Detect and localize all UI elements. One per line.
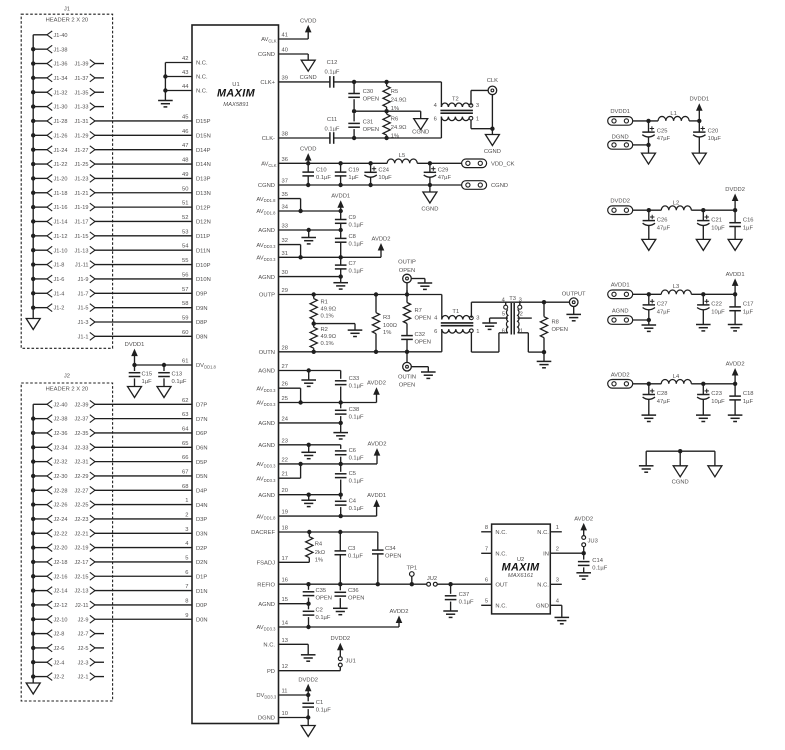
svg-text:J2-21: J2-21 — [75, 531, 89, 537]
svg-text:D9P: D9P — [196, 291, 207, 297]
svg-text:J2-14: J2-14 — [54, 589, 68, 595]
svg-text:R8: R8 — [552, 319, 559, 325]
svg-text:J2-16: J2-16 — [54, 574, 68, 580]
svg-text:J1-22: J1-22 — [54, 162, 68, 168]
svg-text:J1-30: J1-30 — [54, 105, 68, 111]
svg-text:1%: 1% — [315, 557, 323, 563]
svg-text:5: 5 — [502, 312, 505, 318]
svg-text:C8: C8 — [349, 234, 356, 240]
svg-text:41: 41 — [282, 33, 288, 39]
svg-text:53: 53 — [182, 229, 188, 235]
svg-text:J1-18: J1-18 — [54, 191, 68, 197]
svg-text:J1-7: J1-7 — [78, 291, 89, 297]
svg-text:7: 7 — [485, 547, 488, 553]
svg-text:J2-10: J2-10 — [54, 617, 68, 623]
svg-text:J1-39: J1-39 — [75, 62, 89, 68]
svg-text:C25: C25 — [657, 128, 668, 134]
svg-text:AVCLK: AVCLK — [261, 37, 277, 43]
svg-text:DACREF: DACREF — [251, 530, 275, 536]
svg-text:35: 35 — [282, 192, 288, 198]
svg-text:J2-27: J2-27 — [75, 488, 89, 494]
svg-text:J1-13: J1-13 — [75, 248, 89, 254]
svg-text:C37: C37 — [459, 592, 470, 598]
svg-text:CGND: CGND — [300, 75, 317, 81]
svg-text:0.1µF: 0.1µF — [349, 506, 364, 512]
svg-text:J2-12: J2-12 — [54, 603, 68, 609]
svg-text:J1-12: J1-12 — [54, 234, 68, 240]
svg-text:L4: L4 — [673, 374, 680, 380]
svg-text:J2-17: J2-17 — [75, 560, 89, 566]
svg-text:J2-37: J2-37 — [75, 417, 89, 423]
svg-text:N.C.: N.C. — [495, 604, 507, 610]
svg-text:AGND: AGND — [258, 602, 275, 608]
svg-text:0.1µF: 0.1µF — [316, 707, 331, 713]
svg-text:AVDD1: AVDD1 — [331, 194, 350, 200]
svg-text:N.C.: N.C. — [537, 530, 549, 536]
svg-text:19: 19 — [282, 510, 288, 516]
svg-text:C12: C12 — [327, 60, 338, 66]
svg-text:OUT: OUT — [495, 583, 508, 589]
svg-text:34: 34 — [282, 205, 289, 211]
svg-text:39: 39 — [282, 75, 288, 81]
svg-text:AVDD3.3: AVDD3.3 — [256, 386, 276, 392]
svg-text:D10N: D10N — [196, 277, 211, 283]
svg-text:47: 47 — [182, 143, 188, 149]
svg-text:AVDD1: AVDD1 — [611, 282, 630, 288]
svg-text:16: 16 — [282, 578, 288, 584]
svg-text:J2-11: J2-11 — [75, 603, 89, 609]
svg-text:10µF: 10µF — [378, 175, 392, 181]
svg-text:C30: C30 — [363, 89, 374, 95]
svg-text:CGND: CGND — [258, 183, 275, 189]
svg-text:56: 56 — [182, 272, 188, 278]
svg-text:30: 30 — [282, 270, 288, 276]
svg-text:MAX6161: MAX6161 — [508, 573, 533, 579]
svg-text:3: 3 — [185, 527, 188, 533]
svg-text:D13P: D13P — [196, 177, 211, 183]
svg-text:CGND: CGND — [484, 149, 501, 155]
svg-text:OUTN: OUTN — [259, 350, 275, 356]
svg-text:N.C.: N.C. — [196, 89, 208, 95]
svg-text:100Ω: 100Ω — [383, 323, 398, 329]
svg-text:AGND: AGND — [258, 421, 275, 427]
svg-text:AVDD2: AVDD2 — [368, 442, 387, 448]
svg-text:52: 52 — [182, 215, 188, 221]
svg-text:R4: R4 — [315, 542, 323, 548]
svg-text:AVDD1: AVDD1 — [367, 493, 386, 499]
svg-text:49.9Ω: 49.9Ω — [321, 307, 337, 313]
svg-text:J1-28: J1-28 — [54, 119, 68, 125]
svg-text:1%: 1% — [391, 134, 399, 140]
svg-text:C33: C33 — [349, 376, 360, 382]
svg-text:CLK+: CLK+ — [260, 80, 275, 86]
svg-text:8: 8 — [185, 598, 188, 604]
svg-text:J2-4: J2-4 — [54, 660, 65, 666]
svg-text:J2-33: J2-33 — [75, 445, 89, 451]
svg-text:DVDD1: DVDD1 — [610, 109, 630, 115]
svg-text:3: 3 — [556, 578, 559, 584]
svg-text:C9: C9 — [349, 215, 356, 221]
svg-text:J1-23: J1-23 — [75, 177, 89, 183]
svg-text:C15: C15 — [142, 371, 153, 377]
svg-text:0.1µF: 0.1µF — [349, 478, 364, 484]
svg-text:D14P: D14P — [196, 148, 211, 154]
svg-text:1: 1 — [520, 328, 523, 334]
svg-text:DGND: DGND — [612, 134, 629, 140]
svg-text:1: 1 — [476, 117, 479, 123]
svg-text:0.1µF: 0.1µF — [349, 223, 364, 229]
svg-text:D15P: D15P — [196, 119, 211, 125]
svg-text:68: 68 — [182, 484, 188, 490]
svg-text:J2-28: J2-28 — [54, 488, 68, 494]
svg-text:D12P: D12P — [196, 205, 211, 211]
svg-text:AGND: AGND — [258, 493, 275, 499]
svg-text:C16: C16 — [743, 217, 754, 223]
svg-text:DGND: DGND — [258, 716, 275, 722]
svg-text:C3: C3 — [348, 546, 355, 552]
svg-text:J1-20: J1-20 — [54, 177, 68, 183]
svg-text:J2-13: J2-13 — [75, 589, 89, 595]
svg-text:AVDD3.3: AVDD3.3 — [256, 625, 276, 631]
svg-text:C24: C24 — [378, 168, 389, 174]
svg-text:C23: C23 — [711, 391, 722, 397]
svg-text:N.C.: N.C. — [196, 75, 208, 81]
svg-text:CGND: CGND — [421, 207, 438, 213]
svg-text:T3: T3 — [509, 296, 516, 302]
svg-text:D2N: D2N — [196, 560, 208, 566]
svg-text:D0N: D0N — [196, 617, 208, 623]
svg-text:AVDD1.8: AVDD1.8 — [256, 209, 276, 215]
svg-text:AVDD3.3: AVDD3.3 — [256, 476, 276, 482]
svg-text:60: 60 — [182, 330, 188, 336]
svg-text:1%: 1% — [383, 330, 391, 336]
svg-text:D6N: D6N — [196, 445, 208, 451]
svg-text:D13N: D13N — [196, 191, 211, 197]
svg-text:J1-26: J1-26 — [54, 133, 68, 139]
svg-text:D12N: D12N — [196, 220, 211, 226]
svg-text:10: 10 — [282, 711, 288, 717]
svg-text:CLK: CLK — [487, 78, 498, 84]
svg-text:2: 2 — [520, 312, 523, 318]
svg-text:47µF: 47µF — [657, 399, 671, 405]
svg-text:OUTP: OUTP — [259, 293, 275, 299]
svg-text:0.1µF: 0.1µF — [349, 269, 364, 275]
svg-text:C36: C36 — [348, 588, 359, 594]
svg-text:D1N: D1N — [196, 589, 208, 595]
svg-text:OPEN: OPEN — [399, 382, 415, 388]
svg-text:D4P: D4P — [196, 488, 207, 494]
svg-text:29: 29 — [282, 288, 288, 294]
svg-text:DVDD2: DVDD2 — [330, 636, 350, 642]
svg-text:42: 42 — [182, 56, 188, 62]
svg-text:REFIO: REFIO — [257, 582, 275, 588]
svg-text:10µF: 10µF — [708, 136, 722, 142]
svg-text:R7: R7 — [415, 308, 422, 314]
svg-text:D1P: D1P — [196, 574, 207, 580]
svg-text:0.1µF: 0.1µF — [172, 379, 187, 385]
svg-text:J1: J1 — [64, 7, 70, 13]
svg-text:J2-30: J2-30 — [54, 474, 68, 480]
svg-text:C22: C22 — [711, 301, 722, 307]
svg-text:12: 12 — [282, 664, 288, 670]
svg-text:J1-34: J1-34 — [54, 76, 68, 82]
svg-text:HEADER 2 X 20: HEADER 2 X 20 — [46, 387, 89, 393]
svg-text:C28: C28 — [657, 391, 668, 397]
svg-text:OPEN: OPEN — [348, 596, 364, 602]
svg-text:20: 20 — [282, 488, 288, 494]
svg-text:J1-33: J1-33 — [75, 105, 89, 111]
svg-text:J1-36: J1-36 — [54, 62, 68, 68]
svg-text:J2-6: J2-6 — [54, 646, 65, 652]
svg-text:D15N: D15N — [196, 134, 211, 140]
svg-text:10µF: 10µF — [711, 310, 725, 316]
svg-text:67: 67 — [182, 469, 188, 475]
svg-text:J2-39: J2-39 — [75, 402, 89, 408]
svg-text:61: 61 — [182, 359, 188, 365]
svg-text:JU1: JU1 — [346, 659, 356, 665]
svg-text:J1-35: J1-35 — [75, 90, 89, 96]
svg-text:D8P: D8P — [196, 320, 207, 326]
svg-text:CVDD: CVDD — [300, 147, 316, 153]
svg-text:VDD_CK: VDD_CK — [491, 162, 515, 168]
svg-text:C29: C29 — [438, 168, 449, 174]
svg-text:J2-31: J2-31 — [75, 460, 89, 466]
svg-text:5: 5 — [485, 599, 488, 605]
svg-text:C38: C38 — [349, 407, 360, 413]
svg-text:26: 26 — [282, 382, 288, 388]
svg-text:5: 5 — [185, 555, 188, 561]
svg-text:J2-9: J2-9 — [78, 617, 89, 623]
svg-text:J2-29: J2-29 — [75, 474, 89, 480]
svg-text:C10: C10 — [316, 168, 327, 174]
svg-text:36: 36 — [282, 157, 288, 163]
svg-text:D3N: D3N — [196, 531, 208, 537]
svg-text:DVDD3.3: DVDD3.3 — [256, 693, 277, 699]
svg-text:64: 64 — [182, 426, 189, 432]
svg-text:54: 54 — [182, 244, 189, 250]
svg-text:AVDD1.8: AVDD1.8 — [256, 514, 276, 520]
svg-text:6: 6 — [434, 117, 437, 123]
svg-text:D6P: D6P — [196, 431, 207, 437]
svg-text:D7P: D7P — [196, 403, 207, 409]
svg-text:AVDD1.8: AVDD1.8 — [256, 197, 276, 203]
svg-text:49: 49 — [182, 172, 188, 178]
svg-text:OPEN: OPEN — [415, 316, 431, 322]
svg-text:J2-22: J2-22 — [54, 531, 68, 537]
svg-text:0.1µF: 0.1µF — [349, 384, 364, 390]
svg-text:47µF: 47µF — [438, 175, 452, 181]
svg-text:CGND: CGND — [491, 183, 508, 189]
svg-text:J1-8: J1-8 — [54, 263, 65, 269]
svg-text:D4N: D4N — [196, 503, 208, 509]
svg-text:2kΩ: 2kΩ — [315, 550, 326, 556]
svg-text:24.9Ω: 24.9Ω — [391, 125, 407, 131]
svg-text:OPEN: OPEN — [415, 340, 431, 346]
svg-text:AGND: AGND — [258, 443, 275, 449]
svg-text:21: 21 — [282, 472, 288, 478]
svg-text:45: 45 — [182, 114, 188, 120]
svg-text:J2-7: J2-7 — [78, 632, 89, 638]
svg-text:0.1%: 0.1% — [321, 341, 334, 347]
svg-text:N.C.: N.C. — [495, 530, 507, 536]
svg-text:33: 33 — [282, 224, 288, 230]
svg-text:D8N: D8N — [196, 335, 208, 341]
svg-text:7: 7 — [185, 584, 188, 590]
svg-text:DVDD1: DVDD1 — [125, 342, 145, 348]
svg-text:J1-11: J1-11 — [75, 263, 89, 269]
svg-text:6: 6 — [485, 578, 488, 584]
svg-text:14: 14 — [282, 621, 289, 627]
svg-text:TP1: TP1 — [406, 566, 417, 572]
svg-text:6: 6 — [185, 570, 188, 576]
svg-text:J1-5: J1-5 — [78, 306, 89, 312]
svg-text:32: 32 — [282, 238, 288, 244]
svg-text:IN: IN — [543, 551, 549, 557]
svg-text:J2-32: J2-32 — [54, 460, 68, 466]
svg-text:27: 27 — [282, 364, 288, 370]
svg-text:47µF: 47µF — [657, 310, 671, 316]
svg-text:J2-36: J2-36 — [54, 431, 68, 437]
svg-text:CVDD: CVDD — [300, 18, 316, 24]
svg-text:AGND: AGND — [612, 309, 629, 315]
svg-text:C31: C31 — [363, 120, 374, 126]
svg-text:AVDD3.3: AVDD3.3 — [256, 243, 276, 249]
svg-text:MAXIM: MAXIM — [502, 562, 541, 574]
svg-text:0.1µF: 0.1µF — [349, 455, 364, 461]
svg-text:AGND: AGND — [258, 369, 275, 375]
svg-text:0.1µF: 0.1µF — [348, 554, 363, 560]
svg-text:OUTPUT: OUTPUT — [562, 291, 586, 297]
svg-text:AVDD3.3: AVDD3.3 — [256, 462, 276, 468]
svg-text:L1: L1 — [670, 111, 676, 117]
svg-text:CGND: CGND — [412, 130, 429, 136]
svg-text:OPEN: OPEN — [363, 97, 379, 103]
svg-text:J2-8: J2-8 — [54, 632, 65, 638]
svg-text:47µF: 47µF — [657, 226, 671, 232]
svg-text:58: 58 — [182, 301, 188, 307]
svg-text:23: 23 — [282, 438, 288, 444]
svg-text:J1-14: J1-14 — [54, 220, 68, 226]
svg-text:D2P: D2P — [196, 546, 207, 552]
svg-text:AVDD1: AVDD1 — [726, 272, 745, 278]
svg-text:R1: R1 — [321, 299, 328, 305]
svg-text:J1-29: J1-29 — [75, 133, 89, 139]
svg-text:J1-21: J1-21 — [75, 191, 89, 197]
svg-text:AVDD2: AVDD2 — [611, 373, 630, 379]
svg-text:DVDD2: DVDD2 — [610, 199, 630, 205]
svg-text:J2-2: J2-2 — [54, 675, 65, 681]
svg-text:R2: R2 — [321, 327, 328, 333]
svg-text:AVCLK: AVCLK — [261, 162, 277, 168]
svg-text:L3: L3 — [673, 284, 679, 290]
svg-text:OPEN: OPEN — [552, 327, 568, 333]
svg-text:47µF: 47µF — [657, 136, 671, 142]
svg-text:0.1%: 0.1% — [321, 314, 334, 320]
svg-text:22: 22 — [282, 457, 288, 463]
svg-text:OUTIN: OUTIN — [398, 375, 416, 381]
svg-text:J1-31: J1-31 — [75, 119, 89, 125]
svg-text:1µF: 1µF — [348, 175, 359, 181]
svg-text:R3: R3 — [383, 315, 390, 321]
svg-text:1µF: 1µF — [142, 379, 153, 385]
svg-text:55: 55 — [182, 258, 188, 264]
svg-text:AGND: AGND — [258, 228, 275, 234]
svg-text:C1: C1 — [316, 700, 323, 706]
svg-text:DVDD1: DVDD1 — [689, 97, 709, 103]
svg-text:15: 15 — [282, 597, 288, 603]
svg-text:J1-38: J1-38 — [54, 47, 68, 53]
svg-text:J2-40: J2-40 — [54, 402, 68, 408]
svg-text:0.1µF: 0.1µF — [459, 600, 474, 606]
svg-text:1: 1 — [476, 329, 479, 335]
svg-text:MAX5891: MAX5891 — [223, 102, 248, 108]
svg-text:C5: C5 — [349, 471, 356, 477]
svg-text:J2-38: J2-38 — [54, 417, 68, 423]
svg-text:CGND: CGND — [258, 52, 275, 58]
svg-text:C6: C6 — [349, 448, 356, 454]
svg-text:J2-26: J2-26 — [54, 503, 68, 509]
svg-text:10µF: 10µF — [711, 226, 725, 232]
svg-text:J1-19: J1-19 — [75, 205, 89, 211]
svg-text:DVDD2: DVDD2 — [298, 677, 318, 683]
svg-text:3: 3 — [476, 316, 479, 322]
svg-text:C27: C27 — [657, 301, 668, 307]
svg-text:DVDD2: DVDD2 — [725, 187, 745, 193]
svg-text:OPEN: OPEN — [363, 127, 379, 133]
svg-text:C26: C26 — [657, 217, 668, 223]
svg-text:3: 3 — [476, 103, 479, 109]
svg-text:J2-3: J2-3 — [78, 660, 89, 666]
svg-text:J1-16: J1-16 — [54, 205, 68, 211]
svg-text:J1-32: J1-32 — [54, 90, 68, 96]
svg-text:CLK-: CLK- — [262, 136, 275, 142]
svg-text:PD: PD — [267, 669, 275, 675]
svg-text:1: 1 — [185, 498, 188, 504]
svg-text:6: 6 — [434, 329, 437, 335]
svg-text:48: 48 — [182, 158, 188, 164]
svg-text:J1-25: J1-25 — [75, 162, 89, 168]
svg-text:L5: L5 — [399, 153, 405, 159]
svg-text:D5P: D5P — [196, 460, 207, 466]
svg-text:8: 8 — [485, 525, 488, 531]
svg-text:D0P: D0P — [196, 603, 207, 609]
svg-text:J1-40: J1-40 — [54, 33, 68, 39]
svg-text:AVDD2: AVDD2 — [726, 362, 745, 368]
svg-text:65: 65 — [182, 441, 188, 447]
svg-text:0.1µF: 0.1µF — [349, 242, 364, 248]
svg-text:J2-35: J2-35 — [75, 431, 89, 437]
svg-text:J1-27: J1-27 — [75, 148, 89, 154]
svg-text:N.C.: N.C. — [537, 583, 549, 589]
svg-text:66: 66 — [182, 455, 188, 461]
svg-text:OPEN: OPEN — [385, 554, 401, 560]
svg-text:J1-4: J1-4 — [54, 291, 65, 297]
svg-text:L2: L2 — [673, 201, 679, 207]
svg-text:J2-25: J2-25 — [75, 503, 89, 509]
svg-text:C20: C20 — [708, 128, 719, 134]
svg-text:N.C.: N.C. — [495, 552, 507, 558]
svg-text:N.C.: N.C. — [196, 61, 208, 67]
svg-text:MAXIM: MAXIM — [217, 88, 256, 100]
svg-text:1%: 1% — [391, 106, 399, 112]
svg-text:C21: C21 — [711, 217, 722, 223]
svg-text:J2-20: J2-20 — [54, 546, 68, 552]
svg-text:51: 51 — [182, 201, 188, 207]
svg-text:AVDD3.3: AVDD3.3 — [256, 401, 276, 407]
svg-text:OUTIP: OUTIP — [398, 260, 416, 266]
svg-text:44: 44 — [182, 84, 189, 90]
svg-text:D3P: D3P — [196, 517, 207, 523]
